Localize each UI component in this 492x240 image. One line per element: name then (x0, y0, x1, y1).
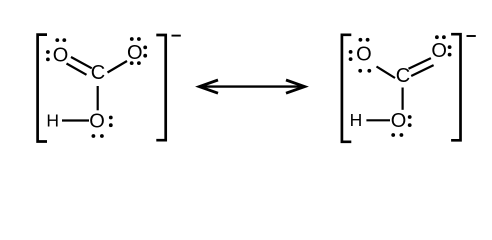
svg-text:O: O (431, 40, 447, 62)
svg-text:C: C (396, 65, 410, 87)
svg-text:O: O (53, 45, 69, 67)
svg-text:H: H (46, 110, 59, 130)
svg-text:O: O (127, 42, 143, 64)
svg-text:O: O (391, 110, 407, 132)
svg-text:H: H (350, 110, 363, 130)
svg-text:C: C (91, 62, 105, 84)
svg-text:O: O (356, 43, 372, 65)
svg-text:O: O (89, 111, 105, 133)
